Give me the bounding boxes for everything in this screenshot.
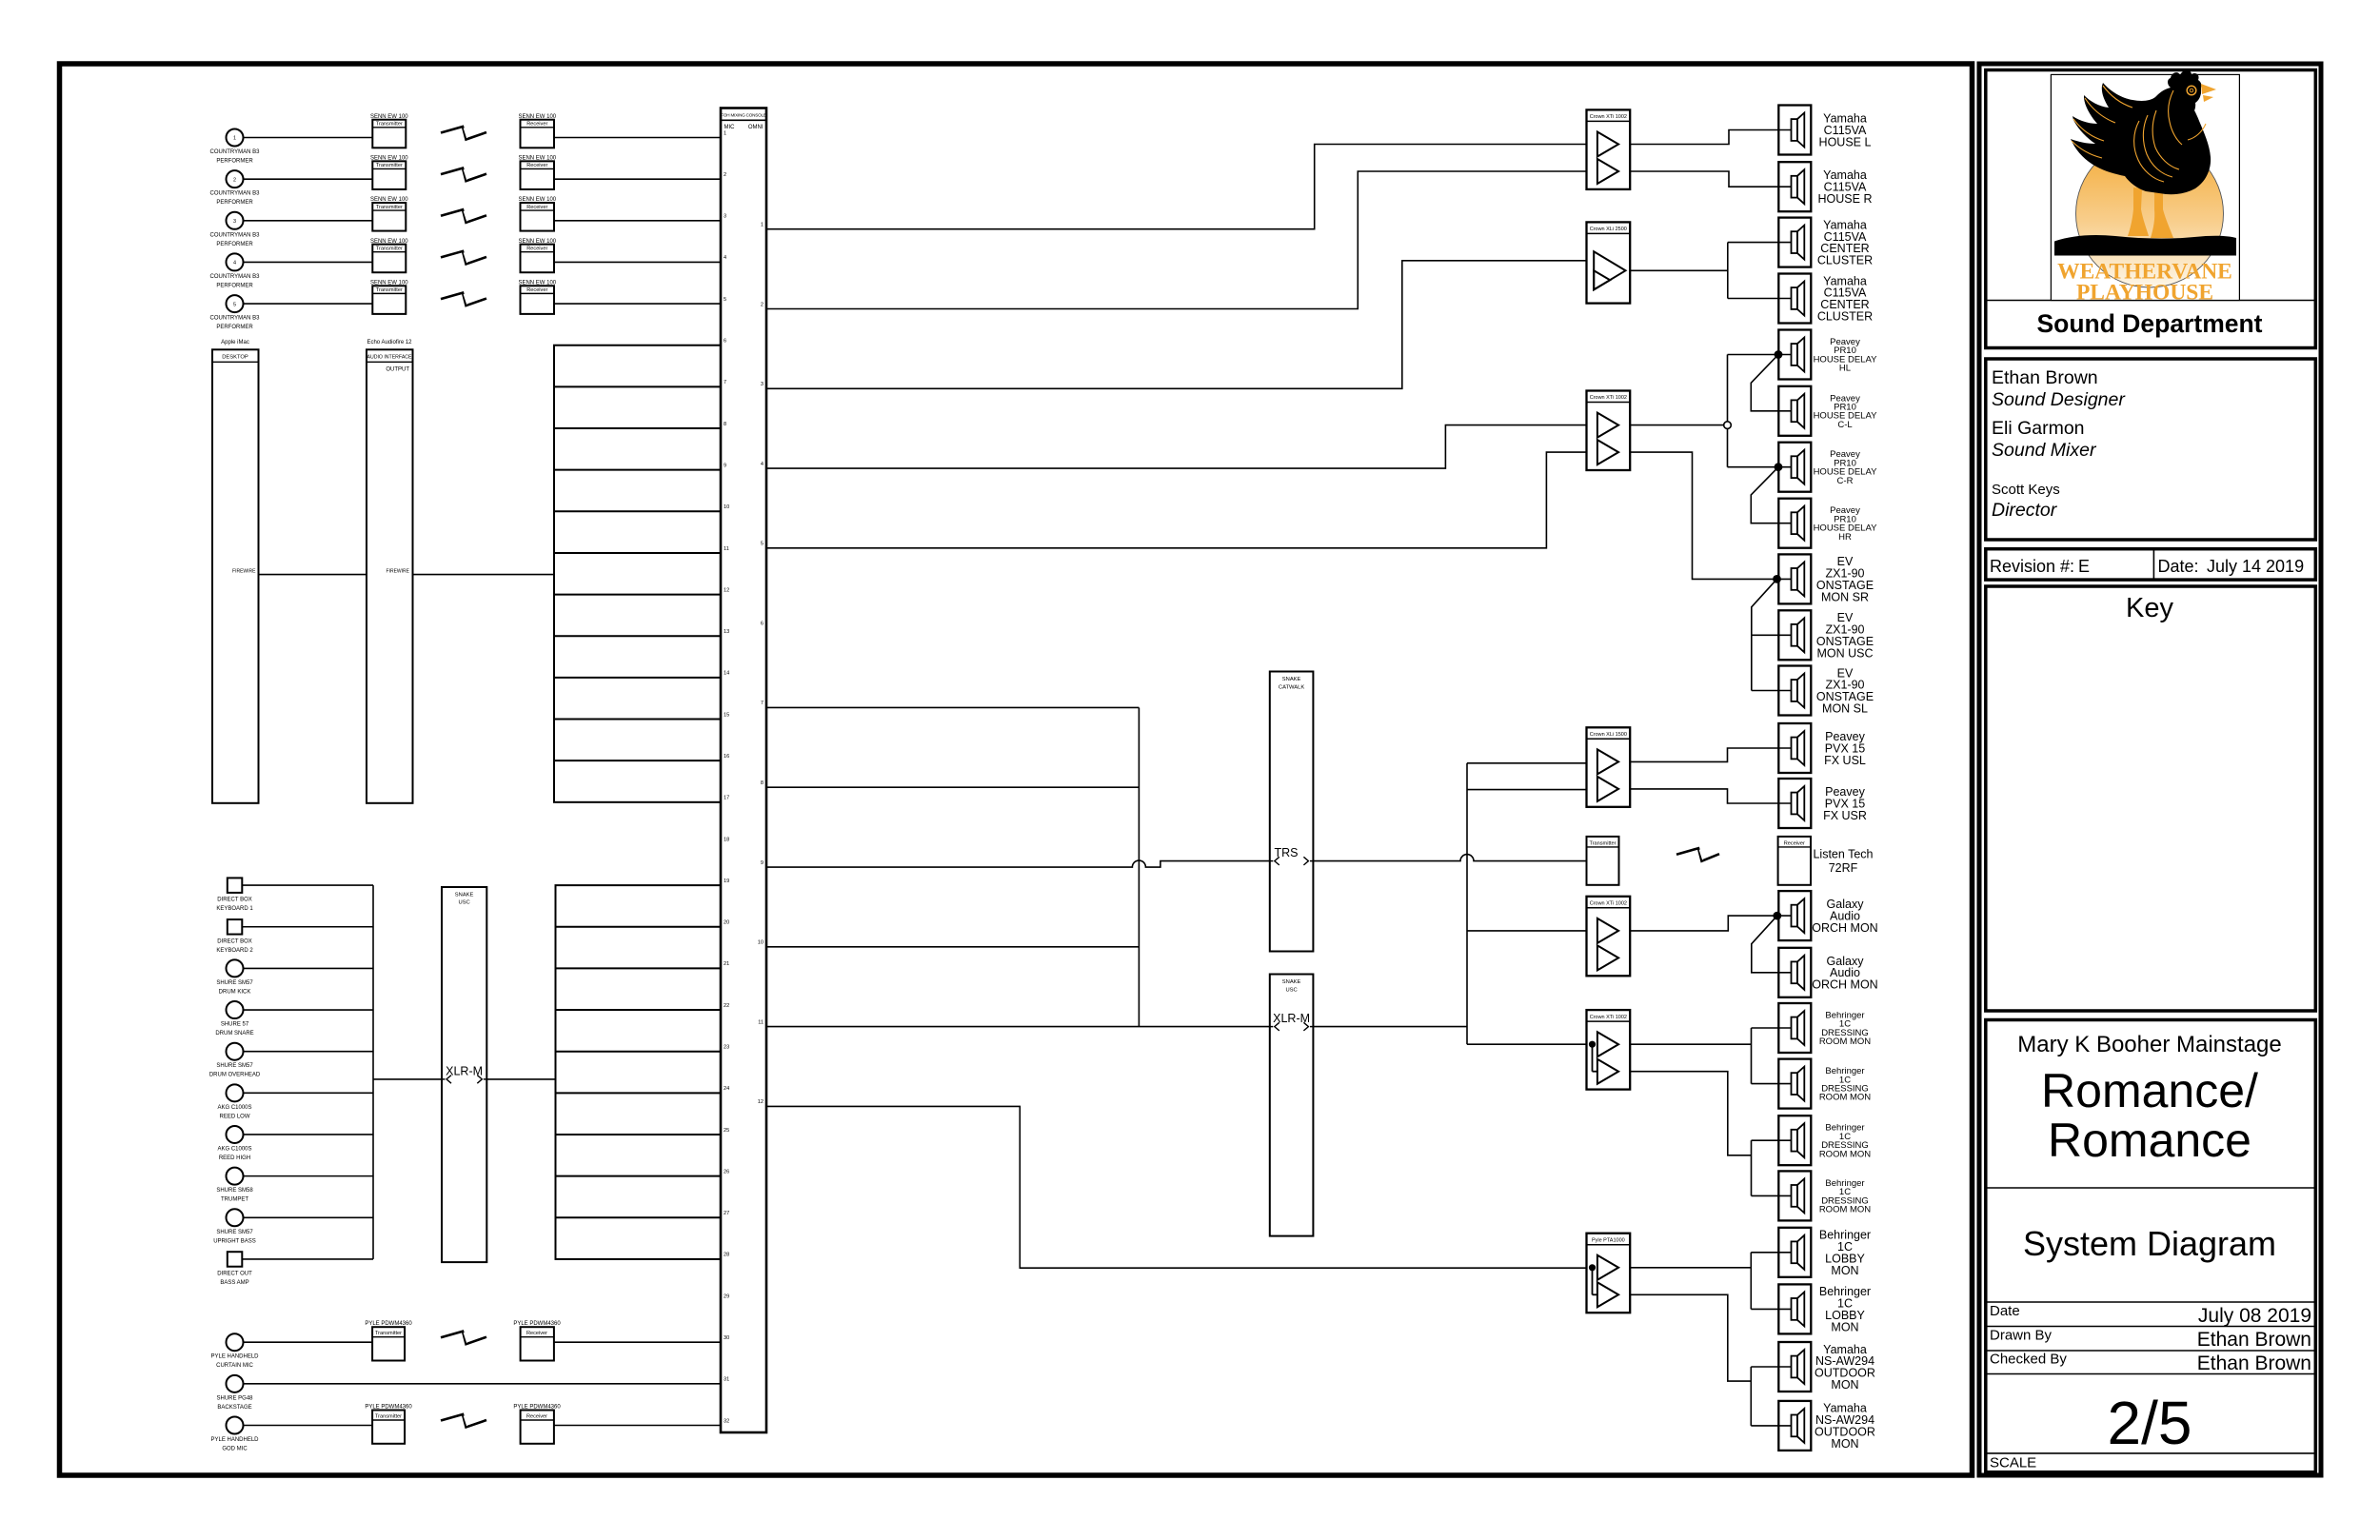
wireless link <box>441 127 486 140</box>
svg-text:PERFORMER: PERFORMER <box>216 200 253 206</box>
svg-text:9: 9 <box>724 463 726 468</box>
svg-text:2/5: 2/5 <box>2108 1389 2192 1457</box>
svg-text:1: 1 <box>724 130 726 136</box>
tail feather accents <box>2103 86 2132 108</box>
wire omni10 to snake bus <box>766 946 1139 948</box>
svg-text:DRUM KICK: DRUM KICK <box>219 989 251 995</box>
mic 4 COUNTRYMAN B3 PERFORMER <box>227 253 244 270</box>
svg-text:25: 25 <box>724 1128 729 1134</box>
svg-text:E: E <box>2078 557 2090 576</box>
wire omni8 to snake bus <box>766 786 1139 788</box>
svg-text:July 14 2019: July 14 2019 <box>2207 557 2304 576</box>
wire receiver to console <box>554 1341 721 1343</box>
logo box <box>1986 70 2316 348</box>
svg-text:4: 4 <box>724 255 726 261</box>
key box <box>1986 586 2316 1011</box>
svg-text:Sound Mixer: Sound Mixer <box>1992 440 2097 461</box>
wire mic to console <box>244 1383 722 1385</box>
rooster legs <box>2128 188 2149 236</box>
speaker Peavey PVX 15 FX USR <box>1778 779 1811 828</box>
speaker Yamaha C115VA HOUSE R <box>1778 162 1811 211</box>
svg-text:FIREWIRE: FIREWIRE <box>232 569 256 575</box>
wire amp1 chB to house R <box>1630 171 1791 187</box>
svg-text:C-R: C-R <box>1837 476 1854 486</box>
svg-text:USC: USC <box>1285 988 1297 994</box>
snake catwalk <box>1270 672 1314 952</box>
input bus vertical <box>372 885 374 1259</box>
svg-text:10: 10 <box>724 504 729 510</box>
svg-text:BASS AMP: BASS AMP <box>220 1280 248 1286</box>
svg-text:Key: Key <box>2126 593 2173 623</box>
wire amp3 chA to house delays <box>1630 424 1724 426</box>
svg-text:HL: HL <box>1839 364 1851 374</box>
svg-text:Crown XTi 1002: Crown XTi 1002 <box>1590 1015 1627 1020</box>
svg-text:AUDIO INTERFACE: AUDIO INTERFACE <box>367 355 413 361</box>
svg-text:10: 10 <box>758 940 764 946</box>
svg-text:3: 3 <box>761 382 764 387</box>
svg-text:Echo Audiofire 12: Echo Audiofire 12 <box>367 340 412 346</box>
svg-text:ROOM MON: ROOM MON <box>1819 1205 1871 1215</box>
svg-text:SHURE SM57: SHURE SM57 <box>216 980 253 986</box>
svg-text:DRUM OVERHEAD: DRUM OVERHEAD <box>209 1073 261 1078</box>
svg-text:Receiver: Receiver <box>526 122 547 128</box>
wire omni1 to amp1 chA <box>766 145 1587 229</box>
svg-text:11: 11 <box>724 546 729 552</box>
wire omni3 to amp2 input <box>766 261 1587 388</box>
svg-text:Crown XLi 2500: Crown XLi 2500 <box>1590 227 1627 232</box>
svg-text:PERFORMER: PERFORMER <box>216 325 253 330</box>
svg-text:20: 20 <box>724 920 729 926</box>
svg-text:Transmitter: Transmitter <box>375 1413 402 1419</box>
svg-text:Transmitter: Transmitter <box>376 122 403 128</box>
wire omni12 to amp7 chA <box>766 1106 1587 1268</box>
svg-text:Apple iMac: Apple iMac <box>221 340 249 346</box>
svg-text:HR: HR <box>1838 532 1852 543</box>
svg-text:Listen Tech: Listen Tech <box>1813 848 1873 861</box>
speaker EV ZX1-90 ONSTAGE MON SL <box>1778 666 1811 716</box>
svg-text:SHURE SM57: SHURE SM57 <box>216 1230 253 1235</box>
wire amp7 chA to lobby monitors <box>1630 1267 1751 1269</box>
wire omni4 to amp3 chA <box>766 425 1587 468</box>
speaker Galaxy Audio ORCH MON 1 <box>1778 891 1811 940</box>
svg-text:Transmitter: Transmitter <box>375 1331 402 1336</box>
svg-text:SNAKE: SNAKE <box>1282 677 1301 682</box>
wire omni9 with hop to snake catwalk <box>766 860 1270 867</box>
wire input to bus <box>242 884 373 886</box>
svg-text:32: 32 <box>724 1418 729 1424</box>
input SHURE SM58 TRUMPET <box>227 1168 244 1185</box>
svg-text:FX USR: FX USR <box>1823 809 1867 822</box>
svg-text:FX USL: FX USL <box>1824 754 1866 767</box>
svg-text:MON: MON <box>1831 1437 1858 1451</box>
svg-text:KEYBOARD 1: KEYBOARD 1 <box>216 906 253 912</box>
amplifier Pyle PTA1000 (lobby/outdoor) <box>1587 1234 1631 1313</box>
amp distribution bus <box>1466 763 1468 1044</box>
svg-text:ORCH MON: ORCH MON <box>1812 921 1877 935</box>
svg-text:C-L: C-L <box>1837 420 1852 430</box>
svg-text:MON SL: MON SL <box>1822 701 1868 715</box>
svg-text:MIC: MIC <box>724 125 736 130</box>
multicore cells mic 19-28 <box>556 885 722 1259</box>
svg-text:DESKTOP: DESKTOP <box>222 355 248 361</box>
svg-text:Scott Keys: Scott Keys <box>1992 482 2060 498</box>
wireless link listen tech <box>1676 848 1719 861</box>
svg-text:3: 3 <box>233 219 236 225</box>
amplifier Crown XLi 1500 (fx) <box>1587 727 1631 807</box>
svg-text:SHURE PG48: SHURE PG48 <box>216 1395 253 1401</box>
svg-text:PERFORMER: PERFORMER <box>216 283 253 288</box>
neck accents <box>2169 90 2182 145</box>
svg-text:8: 8 <box>761 780 764 786</box>
wire amp2 out to center clusters <box>1630 269 1728 271</box>
svg-text:5: 5 <box>761 542 764 547</box>
svg-text:Romance/: Romance/ <box>2041 1064 2258 1117</box>
sun <box>2076 140 2224 287</box>
speaker Yamaha C115VA CENTER CLUSTER 2 <box>1778 274 1811 324</box>
svg-text:MON: MON <box>1831 1378 1858 1392</box>
input SHURE SM57 DRUM OVERHEAD <box>227 1043 244 1060</box>
input SHURE 57 DRUM SNARE <box>227 1001 244 1018</box>
svg-text:1: 1 <box>761 223 764 228</box>
svg-text:Ethan Brown: Ethan Brown <box>1992 367 2098 388</box>
svg-text:COUNTRYMAN B3: COUNTRYMAN B3 <box>210 232 261 238</box>
input SHURE SM57 DRUM KICK <box>227 959 244 977</box>
svg-text:Transmitter: Transmitter <box>376 287 403 293</box>
amplifier Crown XTi 1002 (house delay) <box>1587 391 1631 471</box>
mic 5 COUNTRYMAN B3 PERFORMER <box>227 295 244 312</box>
snake USC (stage left) <box>442 887 486 1262</box>
svg-text:Receiver: Receiver <box>526 1413 547 1419</box>
svg-text:COUNTRYMAN B3: COUNTRYMAN B3 <box>210 191 261 197</box>
svg-text:Crown XTi 1002: Crown XTi 1002 <box>1590 114 1627 120</box>
svg-text:Receiver: Receiver <box>526 163 547 168</box>
svg-text:5: 5 <box>233 302 236 307</box>
svg-text:Receiver: Receiver <box>526 1331 547 1336</box>
wireless link <box>441 293 486 306</box>
wire amp5 chA to galaxy monitors <box>1630 916 1791 931</box>
svg-text:Sound Department: Sound Department <box>2036 309 2262 338</box>
svg-text:ROOM MON: ROOM MON <box>1819 1149 1871 1159</box>
svg-text:REED HIGH: REED HIGH <box>219 1155 250 1161</box>
svg-text:23: 23 <box>724 1044 729 1050</box>
svg-text:7: 7 <box>761 701 764 706</box>
svg-text:CLUSTER: CLUSTER <box>1817 309 1873 323</box>
wire bus to amp4 chB <box>1467 789 1587 791</box>
speaker EV ZX1-90 ONSTAGE MON SR <box>1778 554 1811 603</box>
multicore cells mic 6-17 <box>554 346 721 802</box>
svg-text:PLAYHOUSE: PLAYHOUSE <box>2076 281 2213 306</box>
svg-text:CURTAIN MIC: CURTAIN MIC <box>216 1363 253 1369</box>
wire snake to cells <box>486 1078 555 1080</box>
wireless link <box>441 168 486 182</box>
input DIRECT BOX KEYBOARD 1 <box>228 878 243 893</box>
speaker Behringer 1C DRESSING ROOM MON 2 <box>1778 1059 1811 1109</box>
wing accents <box>2134 121 2164 182</box>
svg-text:Crown XTi 1002: Crown XTi 1002 <box>1590 395 1627 401</box>
svg-text:HOUSE R: HOUSE R <box>1818 192 1873 206</box>
svg-text:28: 28 <box>724 1253 729 1258</box>
svg-text:21: 21 <box>724 961 729 967</box>
svg-text:12: 12 <box>724 587 729 593</box>
svg-text:Receiver: Receiver <box>526 287 547 293</box>
svg-text:Receiver: Receiver <box>526 247 547 252</box>
svg-text:KEYBOARD 2: KEYBOARD 2 <box>216 948 253 954</box>
wire omni11/snake to amp bus <box>1139 1026 1269 1028</box>
svg-text:26: 26 <box>724 1169 729 1175</box>
svg-text:UPRIGHT BASS: UPRIGHT BASS <box>213 1238 256 1244</box>
svg-text:DRUM SNARE: DRUM SNARE <box>215 1031 253 1037</box>
listen tech transmitter <box>1587 837 1619 885</box>
speaker Peavey PR10 HOUSE DELAY C-L <box>1778 386 1811 436</box>
svg-text:6: 6 <box>761 621 764 626</box>
svg-text:TRUMPET: TRUMPET <box>221 1197 248 1203</box>
svg-text:Receiver: Receiver <box>1784 840 1805 846</box>
svg-text:DIRECT BOX: DIRECT BOX <box>217 898 252 903</box>
wire omni2 to amp1 chB <box>766 171 1587 308</box>
speaker Behringer 1C DRESSING ROOM MON 3 <box>1778 1116 1811 1165</box>
amplifier Crown XLi 2500 (center cluster) <box>1587 222 1631 303</box>
svg-text:SHURE SM57: SHURE SM57 <box>216 1063 253 1069</box>
svg-text:1: 1 <box>233 136 236 142</box>
mic SHURE PG48 BACKSTAGE <box>227 1375 244 1392</box>
svg-text:72RF: 72RF <box>1829 861 1858 875</box>
mic 3 COUNTRYMAN B3 PERFORMER <box>227 212 244 229</box>
ground <box>2054 235 2236 256</box>
revision row <box>1986 549 2316 580</box>
rooster eye <box>2187 86 2196 95</box>
amplifier Crown XTi 1002 (dressing rooms) <box>1587 1010 1631 1090</box>
speaker Yamaha NS-AW294 OUTDOOR MON 2 <box>1778 1401 1811 1451</box>
wireless link <box>441 1414 486 1428</box>
svg-text:8: 8 <box>724 422 726 427</box>
svg-text:AKG C1000S: AKG C1000S <box>217 1105 251 1111</box>
svg-text:27: 27 <box>724 1211 729 1216</box>
wire receiver to console <box>554 178 721 180</box>
wire input to bus <box>244 1092 374 1094</box>
input AKG C1000S REED HIGH <box>227 1126 244 1143</box>
svg-text:July 08 2019: July 08 2019 <box>2198 1305 2311 1327</box>
svg-text:USC: USC <box>458 900 469 906</box>
svg-text:22: 22 <box>724 1003 729 1009</box>
svg-text:24: 24 <box>724 1086 729 1092</box>
svg-text:MON USC: MON USC <box>1816 646 1873 660</box>
wire amp6 chA to dressing rooms 1-2 <box>1630 1043 1751 1045</box>
svg-text:6: 6 <box>724 339 726 345</box>
show box <box>1986 1020 2316 1472</box>
svg-text:SHURE 57: SHURE 57 <box>221 1022 249 1028</box>
amplifier Crown XTi 1002 (orch mon) <box>1587 897 1631 977</box>
wire receiver to console <box>554 137 721 139</box>
svg-text:Transmitter: Transmitter <box>1589 840 1616 846</box>
svg-text:MON: MON <box>1831 1320 1858 1333</box>
svg-text:PYLE HANDHELD: PYLE HANDHELD <box>210 1437 259 1443</box>
svg-text:SHURE SM58: SHURE SM58 <box>216 1188 253 1194</box>
svg-text:4: 4 <box>233 261 236 267</box>
svg-text:7: 7 <box>724 380 726 385</box>
speaker Yamaha NS-AW294 OUTDOOR MON 1 <box>1778 1342 1811 1392</box>
svg-text:Romance: Romance <box>2048 1114 2251 1167</box>
svg-text:DIRECT OUT: DIRECT OUT <box>217 1271 252 1276</box>
mic 2 COUNTRYMAN B3 PERFORMER <box>227 170 244 188</box>
svg-text:GOD MIC: GOD MIC <box>222 1446 248 1451</box>
wireless link <box>441 1332 486 1345</box>
svg-text:PYLE HANDHELD: PYLE HANDHELD <box>210 1354 259 1360</box>
svg-text:Mary K Booher Mainstage: Mary K Booher Mainstage <box>2017 1032 2281 1057</box>
speaker Behringer 1C DRESSING ROOM MON 1 <box>1778 1003 1811 1053</box>
wire input to bus <box>244 1051 374 1053</box>
svg-text:19: 19 <box>724 879 729 884</box>
svg-text:Crown XLi 1500: Crown XLi 1500 <box>1590 732 1627 738</box>
svg-text:HOUSE L: HOUSE L <box>1819 135 1872 148</box>
svg-text:Ethan Brown: Ethan Brown <box>2197 1329 2311 1351</box>
svg-text:AKG C1000S: AKG C1000S <box>217 1146 251 1152</box>
wire amp1 chA to house L <box>1630 130 1791 145</box>
svg-text:COUNTRYMAN B3: COUNTRYMAN B3 <box>210 316 261 322</box>
svg-text:Pyle PTA1000: Pyle PTA1000 <box>1592 1237 1625 1243</box>
svg-text:2: 2 <box>761 302 764 307</box>
listen tech receiver <box>1778 837 1811 885</box>
wire firewire <box>259 574 367 576</box>
svg-text:2: 2 <box>233 177 236 183</box>
svg-text:15: 15 <box>724 712 729 718</box>
title block <box>1979 64 2321 1475</box>
svg-text:ORCH MON: ORCH MON <box>1812 978 1877 992</box>
wire receiver to console <box>554 1424 721 1426</box>
svg-text:16: 16 <box>724 754 729 760</box>
wire bus to snake USC <box>373 1078 442 1080</box>
wire interface to snake cells <box>413 574 555 576</box>
speaker Yamaha C115VA HOUSE L <box>1778 106 1811 155</box>
speaker Behringer 1C LOBBY MON 1 <box>1778 1228 1811 1277</box>
svg-text:Drawn By: Drawn By <box>1990 1328 2053 1344</box>
FOH mixing console <box>721 109 766 1433</box>
snake bus vertical <box>1138 707 1140 1026</box>
speaker Peavey PR10 HOUSE DELAY C-R <box>1778 443 1811 492</box>
svg-text:MON SR: MON SR <box>1821 590 1869 603</box>
svg-text:Receiver: Receiver <box>526 205 547 210</box>
svg-text:MON: MON <box>1831 1264 1858 1277</box>
svg-text:FOH MIXING CONSOLE: FOH MIXING CONSOLE <box>721 113 766 118</box>
wire mic to transmitter <box>244 1424 373 1426</box>
svg-text:31: 31 <box>724 1377 729 1383</box>
mic PYLE HANDHELD CURTAIN MIC <box>227 1333 244 1351</box>
svg-text:COUNTRYMAN B3: COUNTRYMAN B3 <box>210 274 261 280</box>
svg-text:SNAKE: SNAKE <box>455 893 474 898</box>
wire mic to transmitter <box>244 137 373 139</box>
wire mic to transmitter <box>244 1341 373 1343</box>
svg-text:9: 9 <box>761 860 764 866</box>
wire mic to transmitter <box>244 178 373 180</box>
rooster body <box>2071 70 2211 195</box>
credits box <box>1986 359 2316 540</box>
wire snake catwalk to listen transmitter (hop over amp bus) <box>1313 855 1586 861</box>
svg-text:3: 3 <box>724 214 726 220</box>
wire receiver to console <box>554 261 721 263</box>
input AKG C1000S REED LOW <box>227 1084 244 1101</box>
wire input to bus <box>244 1134 374 1135</box>
wireless link <box>441 251 486 265</box>
wire amp4 chA to PVX USL <box>1630 748 1791 761</box>
wire bus to amp5 chA <box>1467 930 1587 932</box>
input SHURE SM57 UPRIGHT BASS <box>227 1209 244 1226</box>
svg-text:12: 12 <box>758 1099 764 1105</box>
wire mic to transmitter <box>244 220 373 222</box>
wire omni5 to amp3 chB <box>766 452 1587 548</box>
svg-text:OUTPUT: OUTPUT <box>386 367 409 373</box>
mic 1 COUNTRYMAN B3 PERFORMER <box>227 129 244 147</box>
svg-text:Transmitter: Transmitter <box>376 163 403 168</box>
svg-text:Checked By: Checked By <box>1990 1352 2067 1368</box>
svg-text:COUNTRYMAN B3: COUNTRYMAN B3 <box>210 149 261 155</box>
svg-text:System Diagram: System Diagram <box>2023 1224 2276 1263</box>
svg-text:Sound Designer: Sound Designer <box>1992 389 2126 410</box>
svg-text:Ethan Brown: Ethan Brown <box>2197 1352 2311 1374</box>
wire input to bus <box>242 1258 373 1260</box>
wire bus to amp4 chA <box>1467 762 1587 764</box>
wireless link <box>441 209 486 223</box>
svg-text:CATWALK: CATWALK <box>1279 685 1305 691</box>
svg-text:SNAKE: SNAKE <box>1282 979 1301 985</box>
wire amp6 chB to dressing rooms 3-4 <box>1630 1072 1751 1155</box>
svg-text:14: 14 <box>724 671 729 677</box>
svg-text:ROOM MON: ROOM MON <box>1819 1093 1871 1103</box>
wire bus to amp6 chA <box>1467 1043 1587 1045</box>
wire input to bus <box>244 967 374 969</box>
svg-text:11: 11 <box>758 1019 764 1025</box>
speaker Behringer 1C LOBBY MON 2 <box>1778 1284 1811 1333</box>
svg-text:PERFORMER: PERFORMER <box>216 242 253 247</box>
wire input to bus <box>244 1216 374 1218</box>
svg-text:Date:: Date: <box>2158 557 2199 576</box>
wire receiver to console <box>554 220 721 222</box>
svg-text:Eli Garmon: Eli Garmon <box>1992 418 2085 439</box>
speaker Peavey PR10 HOUSE DELAY HR <box>1778 499 1811 548</box>
rooster beak <box>2201 84 2216 94</box>
svg-text:DIRECT BOX: DIRECT BOX <box>217 938 252 944</box>
wire input to bus <box>244 1175 374 1177</box>
svg-text:FIREWIRE: FIREWIRE <box>387 569 410 575</box>
svg-text:Director: Director <box>1992 500 2058 521</box>
svg-text:Crown XTi 1002: Crown XTi 1002 <box>1590 901 1627 907</box>
svg-text:Date: Date <box>1990 1303 2020 1319</box>
drawing frame <box>60 64 1973 1475</box>
svg-text:PERFORMER: PERFORMER <box>216 159 253 165</box>
wire amp4 chB to PVX USR <box>1630 789 1791 803</box>
input DIRECT OUT BASS AMP <box>228 1252 243 1267</box>
svg-text:SCALE: SCALE <box>1990 1455 2036 1471</box>
svg-text:30: 30 <box>724 1335 729 1341</box>
svg-text:OMNI: OMNI <box>748 125 764 130</box>
input DIRECT BOX KEYBOARD 2 <box>228 919 243 935</box>
svg-text:Revision #:: Revision #: <box>1990 557 2074 576</box>
svg-text:17: 17 <box>724 796 729 801</box>
svg-text:BACKSTAGE: BACKSTAGE <box>217 1405 251 1411</box>
speaker Peavey PR10 HOUSE DELAY HL <box>1778 330 1811 380</box>
speaker Yamaha C115VA CENTER CLUSTER 1 <box>1778 218 1811 267</box>
speaker EV ZX1-90 ONSTAGE MON USC <box>1778 610 1811 660</box>
wire omni7 to snake bus <box>766 706 1139 708</box>
wire input to bus <box>244 1009 374 1011</box>
speaker Galaxy Audio ORCH MON 2 <box>1778 948 1811 997</box>
wire amp7 chB to outdoor monitors <box>1630 1294 1751 1381</box>
speaker Behringer 1C DRESSING ROOM MON 4 <box>1778 1171 1811 1220</box>
svg-text:Transmitter: Transmitter <box>376 247 403 252</box>
wire input to bus <box>242 926 373 928</box>
svg-text:29: 29 <box>724 1293 729 1299</box>
wire receiver to console <box>554 303 721 305</box>
svg-text:2: 2 <box>724 172 726 178</box>
speaker Peavey PVX 15 FX USL <box>1778 723 1811 773</box>
